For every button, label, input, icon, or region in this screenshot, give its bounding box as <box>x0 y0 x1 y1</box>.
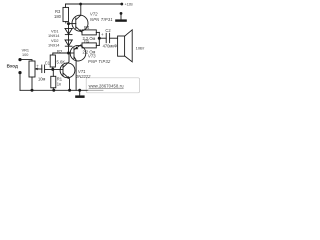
watermark url box <box>86 78 139 93</box>
resistor R2 <box>50 49 65 69</box>
wire node B to VT3 base <box>69 52 75 54</box>
node junction VT2 collector to rail <box>79 3 82 6</box>
node B (VD2 / R2 / VT1 collector / VT3 base) <box>67 52 70 55</box>
svg-text:VT1: VT1 <box>78 69 86 74</box>
resistor R3 <box>54 4 69 23</box>
svg-text:VT2: VT2 <box>90 12 98 17</box>
capacitor C1 10м <box>36 60 51 81</box>
capacitor C2 470мкФ <box>99 28 117 49</box>
chassis ground symbol bottom <box>75 90 84 98</box>
transistor VT1 2N2222 <box>60 54 91 91</box>
node R1 bottom <box>52 89 55 92</box>
svg-text:NPN TIP31: NPN TIP31 <box>90 17 113 22</box>
wire node B left to R2 <box>53 53 69 55</box>
svg-text:1к: 1к <box>57 81 61 86</box>
wire VT1 base <box>45 68 63 70</box>
svg-text:www.28670458.ru: www.28670458.ru <box>89 83 124 88</box>
svg-text:VR1: VR1 <box>22 48 29 52</box>
svg-text:10м: 10м <box>38 77 46 82</box>
svg-text:R2: R2 <box>57 49 63 54</box>
node VT1 emitter <box>68 89 71 92</box>
diode VD1 1N914 <box>48 28 72 38</box>
input terminal lower <box>18 71 21 74</box>
wire top supply rail <box>66 3 123 5</box>
node ground junction <box>78 89 81 92</box>
resistor R1 <box>51 69 63 90</box>
node A (R3 / VD1 / VT2 base) <box>67 22 70 25</box>
svg-text:470мкФ: 470мкФ <box>103 44 118 49</box>
svg-text:C2: C2 <box>105 28 111 33</box>
wire ground rail faded segment <box>88 89 103 91</box>
resistor R5 <box>82 38 99 54</box>
svg-text:R5: R5 <box>84 38 90 43</box>
node +12V terminal <box>120 3 123 6</box>
svg-text:C1: C1 <box>45 60 51 65</box>
svg-text:2.2 Ом: 2.2 Ом <box>83 50 96 55</box>
wire output node vertical <box>98 32 100 45</box>
svg-text:R4: R4 <box>84 25 90 30</box>
svg-text:180: 180 <box>54 14 62 19</box>
svg-text:10Вт: 10Вт <box>136 46 145 51</box>
transistor VT2 NPN TIP31 <box>69 4 113 32</box>
node output junction <box>98 37 101 40</box>
transistor VT3 PNP TIP32 <box>70 45 111 90</box>
node VT1 base / R2 / R1 <box>51 68 54 71</box>
svg-text:Вход: Вход <box>7 64 18 69</box>
svg-text:+: + <box>101 32 104 37</box>
resistor R4 <box>82 25 100 41</box>
svg-text:1N914: 1N914 <box>48 43 60 48</box>
svg-text:+12В: +12В <box>125 2 134 6</box>
node pot bottom <box>31 89 34 92</box>
potentiometer VR1 100 <box>20 48 39 90</box>
wire bottom ground rail <box>20 89 88 91</box>
wire diode chain vertical <box>68 24 70 53</box>
svg-text:PNP TIP32: PNP TIP32 <box>88 59 111 64</box>
svg-text:100: 100 <box>22 53 28 57</box>
input terminal upper <box>18 58 21 61</box>
speaker <box>118 30 145 62</box>
diode VD2 1N914 <box>48 38 72 48</box>
wire input lower to ground rail <box>19 74 21 90</box>
chassis ground symbol top right <box>115 12 127 22</box>
svg-text:2N2222: 2N2222 <box>75 74 91 79</box>
